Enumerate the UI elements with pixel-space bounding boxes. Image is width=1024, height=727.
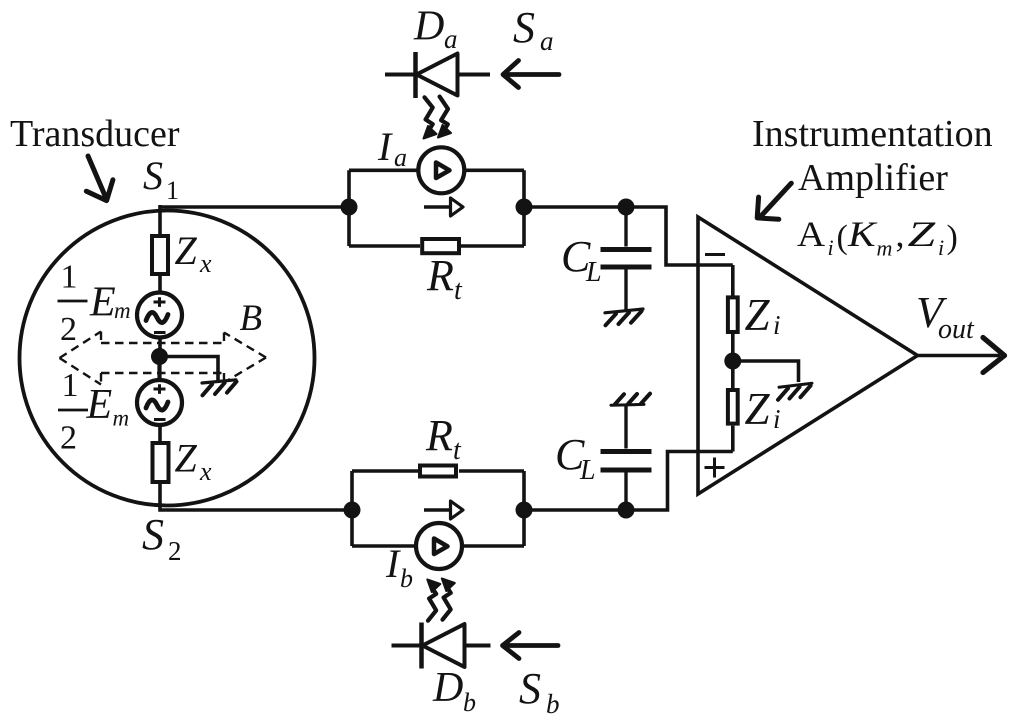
node junction dot bottom-left [344, 502, 361, 519]
svg-text:2: 2 [60, 311, 77, 348]
svg-text:i: i [828, 235, 834, 260]
svg-text:E: E [89, 280, 116, 326]
label Zi upper [745, 290, 781, 340]
node S1 label [143, 153, 179, 205]
svg-text:D: D [413, 4, 444, 50]
resistor Rt top [422, 239, 459, 253]
resistor Zx lower [153, 443, 169, 482]
svg-text:S: S [513, 3, 535, 52]
current source Ia [418, 147, 464, 193]
ground (amp mid) [778, 383, 812, 400]
B field block arrow (dashed) [60, 332, 267, 385]
top loop: wire bottom rail [349, 244, 524, 248]
label Vout [916, 288, 975, 345]
svg-text:): ) [947, 219, 958, 256]
svg-text:,: , [896, 214, 905, 254]
svg-text:B: B [240, 298, 263, 339]
top loop: wire top rail [349, 169, 524, 173]
label B [240, 298, 263, 339]
label Sa [513, 3, 554, 56]
light arrows Da to Ia [424, 97, 452, 139]
resistor Zx upper [152, 236, 168, 274]
annotation arrow to transducer [86, 156, 113, 201]
svg-text:i: i [773, 310, 781, 340]
wire amp internal input line [731, 265, 735, 452]
resistor Zi lower [728, 390, 738, 424]
svg-text:Z: Z [908, 214, 937, 254]
ground (transducer center) [202, 380, 237, 396]
svg-text:a: a [540, 26, 554, 56]
svg-text:E: E [86, 382, 113, 428]
svg-text:b: b [546, 689, 560, 719]
current direction arrow (top) [424, 198, 463, 216]
svg-text:2: 2 [168, 536, 182, 566]
svg-text:L: L [579, 455, 596, 486]
node center junction dot [151, 348, 168, 365]
svg-text:m: m [877, 236, 893, 261]
wire S1 to top loop [158, 205, 349, 235]
wire S2 [158, 484, 352, 512]
svg-text:D: D [432, 665, 463, 711]
top loop: wire right rail [522, 170, 526, 246]
label Zx upper [175, 228, 213, 278]
arrow Sa [503, 61, 559, 88]
current source Ib [416, 523, 462, 569]
capacitor CL top [601, 207, 652, 311]
ground (CL bottom, flipped) [611, 394, 650, 406]
svg-text:1: 1 [61, 259, 78, 296]
svg-text:t: t [454, 275, 463, 306]
svg-text:x: x [199, 457, 212, 486]
LED Db [392, 623, 491, 669]
svg-text:m: m [113, 406, 130, 431]
resistor Rt bottom [420, 466, 456, 477]
svg-text:Amplifier: Amplifier [798, 157, 948, 199]
label 1/2 Em lower [60, 367, 129, 457]
svg-text:Z: Z [175, 436, 198, 481]
svg-text:I: I [377, 124, 393, 169]
svg-text:a: a [394, 143, 407, 172]
svg-text:(: ( [837, 219, 848, 256]
capacitor CL bottom [601, 406, 652, 510]
svg-text:S: S [143, 153, 163, 198]
resistor Zi upper [728, 297, 738, 332]
svg-text:Transducer: Transducer [10, 113, 180, 155]
label Zi lower [745, 384, 781, 434]
wire top loop to amp minus input [524, 207, 733, 265]
svg-text:A: A [797, 215, 825, 254]
top loop: wire left rail [347, 170, 351, 246]
fraction bar upper [58, 300, 88, 303]
bottom loop: wire left rail [350, 471, 354, 546]
fraction bar lower [58, 409, 88, 412]
node S2 label [142, 510, 182, 566]
node junction dot CL bottom [618, 502, 635, 519]
svg-text:i: i [773, 404, 781, 434]
svg-text:m: m [114, 298, 131, 323]
pin plus label [705, 458, 725, 478]
svg-text:2: 2 [60, 420, 77, 457]
label CL bottom [555, 430, 596, 486]
current direction arrow (bottom) [424, 501, 463, 519]
svg-text:Z: Z [745, 384, 771, 434]
arrow Sb [503, 633, 559, 659]
svg-text:t: t [453, 435, 462, 466]
svg-text:1: 1 [166, 176, 179, 205]
bottom loop: wire top rail [352, 469, 524, 473]
wire bottom loop to amp plus input [524, 452, 733, 511]
label Rt top [426, 251, 463, 306]
svg-text:b: b [463, 688, 476, 717]
wire amp mid to ground [733, 361, 799, 382]
label Ib [385, 541, 413, 593]
node junction dot CL top [618, 199, 635, 216]
annotation arrow to amp [757, 183, 791, 219]
node junction dot top-right [516, 199, 533, 216]
source E2 (1/2 Em lower) [137, 363, 182, 425]
svg-text:R: R [426, 251, 454, 300]
svg-text:Z: Z [175, 228, 198, 273]
node junction dot bottom-right [516, 502, 533, 519]
ground (CL top) [605, 309, 643, 325]
label Sb [519, 664, 560, 719]
svg-text:Z: Z [745, 290, 771, 340]
svg-text:out: out [938, 314, 975, 345]
svg-text:i: i [938, 235, 944, 260]
label Zx lower [175, 436, 213, 487]
wire center node to ground [160, 357, 219, 381]
svg-text:x: x [199, 249, 212, 278]
svg-text:L: L [585, 257, 602, 288]
op-amp U1 triangle [698, 217, 918, 494]
svg-text:K: K [847, 214, 878, 254]
label Rt bottom [425, 411, 462, 466]
source E1 (1/2 Em upper) [137, 293, 182, 338]
label Ai(Km,Zi) [797, 214, 958, 261]
svg-text:I: I [385, 541, 401, 586]
transducer body circle [20, 211, 315, 506]
svg-text:Instrumentation: Instrumentation [752, 113, 993, 155]
svg-text:b: b [400, 564, 413, 593]
label 1/2 Em upper [60, 259, 131, 349]
label Da [413, 4, 458, 55]
label Ia [377, 124, 407, 172]
bottom loop: wire right rail [522, 471, 526, 546]
label Db [432, 665, 476, 717]
wire E1 to center node [158, 338, 162, 351]
svg-text:S: S [519, 664, 541, 713]
svg-text:S: S [142, 510, 164, 559]
label CL top [561, 232, 602, 288]
wire E2 to Zx lower [158, 425, 162, 441]
svg-text:a: a [444, 24, 458, 54]
svg-text:1: 1 [62, 367, 79, 404]
pin minus label [705, 253, 725, 256]
light arrows Db to Ib [427, 579, 455, 621]
LED Da [385, 52, 490, 98]
wire Zx to source E1 [158, 276, 162, 294]
output arrowhead [983, 338, 1005, 373]
output wire Vout [918, 354, 1001, 358]
svg-text:R: R [425, 411, 453, 460]
bottom loop: wire bottom rail [352, 544, 524, 548]
node junction dot amp mid [724, 353, 741, 370]
node junction dot top-left [341, 199, 358, 216]
